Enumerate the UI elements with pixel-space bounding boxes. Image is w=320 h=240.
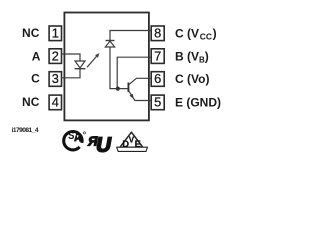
svg-text:C (Vo): C (Vo) bbox=[175, 72, 209, 86]
svg-text:i179081_4: i179081_4 bbox=[12, 127, 39, 134]
svg-text:A: A bbox=[32, 49, 41, 63]
svg-text:1: 1 bbox=[52, 26, 59, 41]
svg-text:5: 5 bbox=[154, 95, 161, 110]
svg-text:NC: NC bbox=[22, 26, 40, 40]
svg-text:B (VB): B (VB) bbox=[175, 49, 209, 64]
svg-text:3: 3 bbox=[52, 71, 59, 86]
svg-text:S: S bbox=[68, 130, 74, 142]
svg-text:C (VCC): C (VCC) bbox=[175, 27, 217, 42]
svg-text:7: 7 bbox=[154, 48, 161, 63]
svg-text:C: C bbox=[31, 72, 40, 86]
svg-text:E (GND): E (GND) bbox=[175, 96, 221, 110]
svg-text:8: 8 bbox=[154, 26, 161, 41]
svg-text:U: U bbox=[94, 134, 113, 157]
svg-text:E: E bbox=[135, 139, 141, 149]
svg-text:6: 6 bbox=[154, 71, 161, 86]
svg-text:NC: NC bbox=[22, 95, 40, 109]
svg-text:2: 2 bbox=[52, 48, 59, 63]
svg-text:D: D bbox=[122, 139, 129, 149]
svg-text:4: 4 bbox=[52, 95, 59, 110]
